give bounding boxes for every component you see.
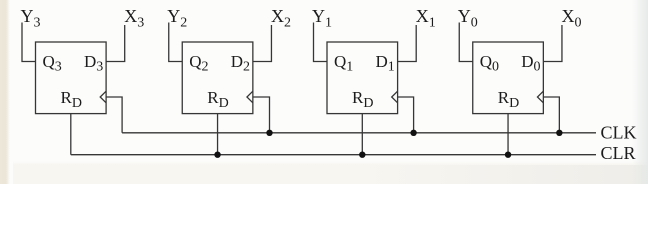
svg-text:CLR: CLR <box>601 143 636 163</box>
svg-text:X2: X2 <box>271 6 291 31</box>
svg-text:Q3: Q3 <box>43 52 62 75</box>
svg-text:Q1: Q1 <box>334 52 353 75</box>
svg-text:RD: RD <box>352 88 373 111</box>
svg-text:D2: D2 <box>231 52 250 75</box>
svg-text:RD: RD <box>498 88 519 111</box>
svg-text:D0: D0 <box>521 52 540 75</box>
svg-text:Y1: Y1 <box>312 6 332 31</box>
svg-text:Q0: Q0 <box>480 52 499 75</box>
svg-text:RD: RD <box>207 88 228 111</box>
svg-text:X1: X1 <box>416 6 436 31</box>
svg-text:Y0: Y0 <box>458 6 478 31</box>
svg-text:RD: RD <box>61 88 82 111</box>
svg-text:Y3: Y3 <box>21 6 41 31</box>
svg-text:D3: D3 <box>84 52 103 75</box>
svg-text:Y2: Y2 <box>167 6 187 31</box>
svg-text:X3: X3 <box>124 6 144 31</box>
svg-text:D1: D1 <box>376 52 395 75</box>
svg-text:CLK: CLK <box>601 123 637 143</box>
svg-text:Q2: Q2 <box>189 52 208 75</box>
svg-text:X0: X0 <box>562 6 582 31</box>
